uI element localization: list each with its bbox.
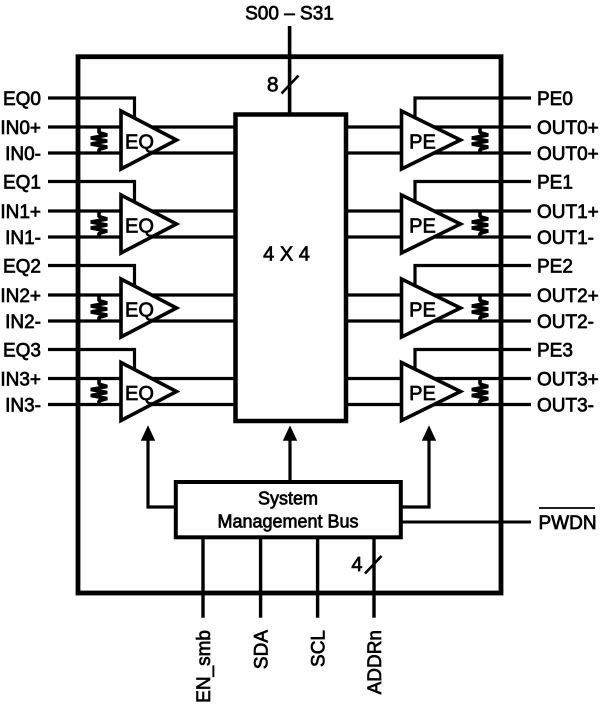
svg-text:IN0-: IN0- <box>5 144 41 165</box>
wire EQ2 <box>48 266 135 293</box>
pre-emphasis amp PE channel 2 <box>402 279 461 337</box>
wire OUT3+ row 3 <box>346 377 531 380</box>
svg-text:ADDRn: ADDRn <box>365 630 386 694</box>
svg-text:PE3: PE3 <box>537 340 573 361</box>
bus width slash 4 on ADDRn <box>365 556 382 574</box>
wire IN2+ <box>48 293 236 296</box>
wire SMB to PE control arrow <box>401 440 429 508</box>
svg-text:EN_smb: EN_smb <box>194 630 215 703</box>
svg-text:OUT3-: OUT3- <box>537 395 594 416</box>
pre-emphasis amp PE channel 3 <box>402 363 461 421</box>
wire OUT3- row 3 minus <box>346 403 531 406</box>
svg-text:8: 8 <box>267 74 279 97</box>
pin label PWDN with overline <box>539 507 595 509</box>
wire OUT1+ row 1 <box>346 209 531 212</box>
svg-text:PE: PE <box>409 131 436 153</box>
output termination resistor channel 2 <box>472 295 488 321</box>
svg-text:SCL: SCL <box>309 630 330 667</box>
wire IN1- <box>48 235 236 238</box>
svg-text:EQ: EQ <box>125 131 154 153</box>
svg-text:OUT1-: OUT1- <box>537 228 594 249</box>
wire SMB to matrix arrow <box>288 440 291 482</box>
svg-text:OUT0+: OUT0+ <box>537 144 599 165</box>
equalizer amp EQ channel 1 <box>121 195 177 253</box>
svg-text:IN0+: IN0+ <box>0 118 41 139</box>
svg-text:EQ1: EQ1 <box>3 172 41 193</box>
input termination resistor channel 0 <box>91 127 107 153</box>
svg-text:PE: PE <box>409 383 436 405</box>
wire OUT0+ row 0 minus <box>346 151 531 154</box>
input termination resistor channel 1 <box>91 211 107 237</box>
svg-text:System: System <box>258 489 318 509</box>
output termination resistor channel 1 <box>472 211 488 237</box>
svg-text:OUT0+: OUT0+ <box>537 118 599 139</box>
wire PE1 <box>415 182 531 209</box>
svg-text:Management Bus: Management Bus <box>217 512 358 532</box>
svg-text:4 X 4: 4 X 4 <box>263 243 310 265</box>
wire SMB to EQ control arrow <box>148 440 176 508</box>
svg-text:SDA: SDA <box>252 630 273 669</box>
svg-text:EQ: EQ <box>125 383 154 405</box>
pre-emphasis amp PE channel 0 <box>402 111 461 169</box>
wire IN0+ <box>48 125 236 128</box>
svg-text:IN3+: IN3+ <box>0 369 41 390</box>
wire EQ3 <box>48 350 135 376</box>
svg-text:IN2+: IN2+ <box>0 286 41 307</box>
svg-text:EQ: EQ <box>125 215 154 237</box>
svg-text:PE: PE <box>409 299 436 321</box>
device boundary box <box>78 57 501 593</box>
svg-text:IN2-: IN2- <box>5 312 41 333</box>
svg-text:4: 4 <box>351 554 362 576</box>
wire OUT2+ row 2 <box>346 293 531 296</box>
svg-text:S00 – S31: S00 – S31 <box>245 4 334 25</box>
svg-text:PE2: PE2 <box>537 256 573 277</box>
wire PE0 <box>415 98 531 124</box>
svg-text:EQ2: EQ2 <box>3 256 41 277</box>
equalizer amp EQ channel 2 <box>121 279 177 337</box>
wire OUT0+ row 0 <box>346 125 531 128</box>
svg-text:OUT1+: OUT1+ <box>537 202 599 223</box>
svg-text:OUT2-: OUT2- <box>537 312 594 333</box>
wire IN0- <box>48 151 236 154</box>
wire PE3 <box>415 350 531 376</box>
wire OUT2- row 2 minus <box>346 319 531 322</box>
svg-text:IN1+: IN1+ <box>0 202 41 223</box>
svg-text:PE: PE <box>409 215 436 237</box>
wire EQ1 <box>48 182 135 209</box>
wire S bus vertical <box>288 26 292 116</box>
svg-text:IN1-: IN1- <box>5 228 41 249</box>
wire PWDN <box>401 521 531 524</box>
wire pin SCL <box>316 537 319 618</box>
input termination resistor channel 2 <box>91 295 107 321</box>
wire IN3- <box>48 403 236 406</box>
equalizer amp EQ channel 0 <box>121 111 177 169</box>
wire OUT1- row 1 minus <box>346 235 531 238</box>
crosspoint switch matrix 4 X 4 <box>236 115 347 422</box>
equalizer amp EQ channel 3 <box>121 363 177 421</box>
svg-text:PE1: PE1 <box>537 172 573 193</box>
output termination resistor channel 3 <box>472 379 488 405</box>
svg-text:EQ: EQ <box>125 299 154 321</box>
svg-text:OUT2+: OUT2+ <box>537 286 599 307</box>
svg-text:PE0: PE0 <box>537 89 573 110</box>
svg-text:EQ3: EQ3 <box>3 340 41 361</box>
wire PE2 <box>415 266 531 293</box>
wire IN3+ <box>48 377 236 380</box>
wire EQ0 <box>48 98 135 124</box>
wire IN2- <box>48 319 236 322</box>
wire pin EN_smb <box>201 537 204 618</box>
block System Management Bus U-SMB <box>176 482 401 537</box>
svg-text:IN3-: IN3- <box>5 395 41 416</box>
wire pin SDA <box>259 537 262 618</box>
svg-text:OUT3+: OUT3+ <box>537 369 599 390</box>
output termination resistor channel 0 <box>472 127 488 153</box>
wire IN1+ <box>48 209 236 212</box>
wire pin ADDRn <box>372 537 375 618</box>
svg-text:PWDN: PWDN <box>539 513 597 534</box>
bus width slash 8 <box>282 76 299 94</box>
pre-emphasis amp PE channel 1 <box>402 195 461 253</box>
input termination resistor channel 3 <box>91 379 107 405</box>
svg-text:EQ0: EQ0 <box>3 89 41 110</box>
